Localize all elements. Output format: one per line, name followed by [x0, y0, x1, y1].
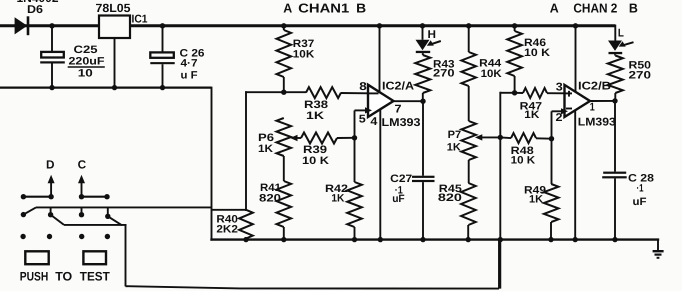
wire row2 stub 3: [81, 207, 83, 214]
wire node C2 down to C28: [614, 101, 616, 172]
svg-text:L: L: [618, 28, 624, 40]
svg-text:IC2/A: IC2/A: [382, 80, 414, 92]
op-amp U2 minus marker: [566, 108, 572, 110]
svg-text:uF: uF: [633, 196, 647, 208]
push button 2: [83, 251, 106, 264]
capacitor C27 bottom plate: [412, 180, 435, 182]
ground bar 1: [653, 250, 664, 252]
wire op-amp U2 V+ from rail: [575, 26, 577, 92]
resistor R45: [461, 183, 476, 225]
node C26 on power ground: [160, 85, 165, 90]
wire switch row1 right bar: [82, 196, 108, 198]
switch arrow D shaft: [50, 181, 52, 197]
wire R44 to P7: [468, 86, 470, 121]
resistor R46: [507, 31, 522, 76]
wire C25 top lead: [51, 26, 53, 52]
svg-text:P7: P7: [448, 129, 462, 141]
switch contact row3-1: [20, 234, 25, 239]
node IC1 gnd: [112, 85, 117, 90]
wire plus input overshoot IC2/A: [368, 92, 379, 94]
wire node C1 down to C27: [422, 101, 424, 176]
svg-text:CHAN1: CHAN1: [298, 0, 349, 15]
op-amp U2 plus marker horizontal: [565, 92, 573, 94]
wire R48 to node B2: [536, 137, 552, 139]
svg-text:4·7: 4·7: [181, 57, 198, 69]
resistor R40: [239, 210, 253, 239]
op-amp IC2/B: [565, 85, 591, 117]
wire test link up to ground rail: [498, 240, 500, 289]
svg-text:1K: 1K: [529, 194, 543, 206]
wire R38 to op-amp plus input: [341, 92, 368, 94]
LED L: [608, 41, 622, 51]
svg-text:C25: C25: [74, 44, 98, 56]
LED L indicator arrowhead: [619, 41, 626, 46]
node test link on ground rail: [498, 237, 503, 242]
svg-text:uF: uF: [392, 193, 405, 205]
wire from node A2 down to bottom link: [499, 92, 501, 289]
diode D6 cathode bar: [27, 16, 30, 35]
node B2 (R48/R49/minus input): [549, 136, 554, 141]
node A2 (R46/R47): [512, 90, 517, 95]
svg-text:A: A: [550, 0, 560, 15]
switch contact row2-2: [48, 212, 53, 217]
potentiometer P6 wiper arrow: [290, 135, 297, 141]
svg-text:C27: C27: [390, 173, 412, 185]
svg-text:TO: TO: [55, 270, 72, 284]
node R42 on ground rail: [352, 237, 357, 242]
svg-text:PUSH: PUSH: [20, 270, 49, 284]
wire P7 wiper to node D2: [481, 136, 500, 138]
potentiometer P6: [277, 118, 292, 156]
switch contact row1-1: [21, 194, 26, 199]
svg-text:1: 1: [590, 101, 595, 113]
wire R39 to node B1: [337, 137, 355, 139]
wire node A2 to R47: [515, 92, 523, 94]
label C25 fraction bar: [68, 66, 105, 68]
wire row2-2 diagonal down: [51, 215, 64, 225]
wire R46 bottom lead: [514, 76, 516, 93]
wire main bottom ground rail: [210, 238, 659, 240]
capacitor C26 negative plate: [150, 62, 174, 64]
capacitor C28 top plate: [603, 172, 626, 174]
svg-text:5: 5: [359, 114, 366, 126]
wire row2-4 diagonal down: [108, 216, 122, 225]
node C28 on ground rail: [612, 237, 617, 242]
resistor R42: [347, 182, 362, 227]
svg-text:4: 4: [370, 116, 378, 128]
switch arrow C head: [78, 175, 85, 183]
node D2 (P7 wiper): [498, 135, 503, 140]
capacitor C26 positive plate: [150, 52, 174, 57]
wire row2 stub 4: [107, 207, 109, 216]
svg-text:7: 7: [395, 104, 402, 116]
svg-text:P6: P6: [258, 132, 274, 144]
svg-text:1K: 1K: [447, 142, 461, 154]
switch contact row1-4: [104, 194, 109, 199]
svg-text:·1: ·1: [637, 183, 644, 195]
wire R37 bottom lead: [283, 77, 285, 92]
switch contact row1-3: [79, 194, 84, 199]
svg-text:CHAN 2: CHAN 2: [573, 0, 617, 15]
node R41 on ground rail: [281, 237, 286, 242]
LED H indicator arrow shaft: [430, 41, 441, 45]
wire R46 top lead: [514, 26, 516, 31]
switch contact row3-4: [105, 234, 110, 239]
potentiometer P7 wiper arrow: [475, 134, 482, 140]
node C1 (output/R43/C27): [420, 99, 425, 104]
wire to op-amp U2 minus input: [552, 110, 563, 112]
wire node A1 down to R40: [245, 91, 247, 211]
wire node B2 up to minus input: [551, 111, 553, 139]
wire P6 wiper to R39: [297, 137, 302, 139]
ground stem: [657, 239, 659, 252]
svg-text:10K: 10K: [293, 48, 315, 60]
switch contact row2-3: [79, 212, 84, 217]
wire R47 to op-amp plus input: [547, 92, 565, 94]
wire node B1 down to R42: [354, 138, 356, 182]
svg-text:IC2/B: IC2/B: [578, 80, 611, 92]
resistor R44: [461, 52, 476, 86]
svg-text:1K: 1K: [524, 109, 539, 121]
switch blade diagonal: [23, 207, 36, 214]
switch contact row2-1: [21, 212, 26, 217]
wire LED L to R50: [614, 54, 616, 55]
svg-text:IC1: IC1: [132, 14, 148, 26]
wire R42 bottom lead: [354, 227, 356, 240]
LED H indicator arrowhead: [427, 40, 434, 46]
wire node B1 up to minus input: [354, 110, 356, 138]
svg-text:LM393: LM393: [382, 117, 421, 129]
svg-text:1K: 1K: [258, 143, 273, 155]
wire IC1 ground lead: [114, 38, 116, 88]
node R37 on V+ rail: [281, 23, 286, 28]
node U2 V+ on rail: [573, 23, 578, 28]
wire C27 bottom lead: [422, 182, 424, 240]
wire LED L top lead: [614, 25, 616, 41]
svg-text:8: 8: [359, 81, 367, 93]
wire op-amp U1 pin8 V+ from rail: [379, 26, 381, 92]
switch arrow D head: [48, 175, 55, 183]
svg-text:820: 820: [438, 192, 462, 204]
switch contact row2-4: [105, 214, 110, 219]
wire R43 bottom lead: [422, 93, 424, 101]
node pin8 on V+ rail: [377, 23, 382, 28]
node R45 on ground rail: [466, 237, 471, 242]
node C2 (output/R50/C28): [612, 98, 617, 103]
resistor R50: [608, 56, 623, 94]
wire C26 bottom lead: [162, 64, 164, 87]
node B1 (R39/R42/minus input): [352, 135, 357, 140]
node C27 on ground rail: [420, 237, 425, 242]
svg-text:10 K: 10 K: [302, 155, 329, 167]
node D6/C25 on V+ rail: [49, 23, 54, 28]
switch contact row3-2: [47, 234, 52, 239]
LED H: [416, 40, 430, 50]
svg-text:TEST: TEST: [80, 270, 110, 284]
wire switch row1 left bar: [23, 196, 51, 198]
wire R41 bottom lead: [283, 227, 285, 240]
op-amp IC2/A: [368, 85, 394, 117]
wire power-supply ground rail: [0, 86, 212, 88]
resistor R41: [277, 181, 292, 227]
node R49 on ground rail: [548, 237, 553, 242]
wire C26 top lead: [162, 26, 164, 53]
wire LED H top lead: [422, 26, 424, 40]
wire row2 stub 2: [50, 207, 52, 214]
svg-text:A: A: [283, 0, 293, 15]
wire to R40 top: [212, 209, 247, 211]
svg-text:3: 3: [556, 81, 563, 93]
svg-text:B: B: [629, 0, 638, 15]
svg-text:D6: D6: [27, 4, 43, 16]
arrow into op-amp U2 minus input: [561, 108, 568, 114]
svg-text:C: C: [78, 158, 87, 172]
resistor R39: [301, 133, 337, 144]
capacitor C28 bottom plate: [602, 176, 627, 178]
wire op-amp U1 pin4 ground: [379, 110, 381, 241]
op-amp U2 plus marker vertical: [568, 91, 570, 97]
wire R37 top lead: [283, 26, 285, 30]
svg-text:270: 270: [629, 70, 652, 82]
wire vertical from power rail down to bottom rail: [211, 87, 213, 241]
node R46 on V+ rail: [512, 23, 517, 28]
ground bar 2: [655, 254, 662, 256]
wire node A2 left: [500, 92, 514, 94]
wire test link bottom: [126, 286, 500, 288]
ground bar 3: [657, 257, 660, 259]
svg-text:10: 10: [78, 67, 93, 79]
wire IC2/B output to node C2: [590, 100, 615, 102]
svg-text:10K: 10K: [481, 68, 502, 80]
wire R45 bottom lead: [467, 225, 469, 240]
wire node B2 down to R49: [551, 139, 553, 184]
svg-text:10 K: 10 K: [511, 155, 536, 167]
diode D6: [15, 17, 28, 34]
LED H cathode bar: [416, 51, 430, 53]
svg-text:10 K: 10 K: [524, 47, 550, 59]
wire to op-amp minus input: [355, 109, 367, 111]
svg-text:D: D: [46, 158, 55, 172]
capacitor C25 positive plate: [41, 52, 64, 58]
switch contact row1-2: [48, 194, 53, 199]
wire C25 bottom lead: [51, 64, 53, 88]
svg-text:LM393: LM393: [578, 116, 616, 128]
resistor R48: [511, 133, 536, 143]
wire lower switch link: [64, 224, 127, 226]
node pin4 on ground rail: [378, 237, 383, 242]
LED L cathode bar: [609, 52, 623, 54]
wire P7 to R45: [468, 160, 470, 183]
wire switch common to R40 node: [36, 206, 212, 208]
svg-text:1K: 1K: [331, 193, 344, 205]
wire op-amp U2 ground pin: [574, 110, 576, 240]
wire LED H to R43: [422, 53, 424, 55]
svg-text:u F: u F: [181, 70, 198, 82]
wire R50 bottom lead: [614, 93, 616, 101]
capacitor C27 top plate: [412, 176, 435, 178]
arrow into op-amp minus input: [365, 107, 372, 113]
resistor R43: [415, 55, 430, 93]
resistor R37: [277, 30, 292, 77]
wire R49 bottom lead: [550, 222, 552, 240]
resistor R38: [306, 87, 341, 98]
potentiometer P7: [461, 121, 476, 160]
LED L indicator arrow shaft: [622, 42, 634, 45]
wire top V+ rail: [0, 24, 615, 27]
resistor R49: [544, 184, 559, 222]
capacitor C25 negative plate: [40, 61, 65, 63]
svg-text:270: 270: [433, 68, 455, 80]
switch arrow C shaft: [81, 181, 83, 197]
svg-text:220uF: 220uF: [69, 56, 106, 68]
wire C28 bottom lead: [614, 178, 616, 240]
svg-text:2K2: 2K2: [216, 224, 238, 236]
node C25 on power ground: [49, 85, 54, 90]
node A1 (R37/P6/R38): [281, 90, 286, 95]
svg-text:B: B: [356, 0, 366, 15]
wire P6 to R41: [283, 156, 285, 181]
node LED H on V+ rail: [420, 23, 425, 28]
node R40 on ground rail: [243, 237, 248, 242]
wire IC2/A output to node C1: [394, 100, 424, 102]
regulator IC1 78L05 box: [99, 16, 130, 39]
switch contact row3-3: [79, 234, 84, 239]
resistor R47: [523, 88, 547, 98]
svg-text:78L05: 78L05: [96, 1, 131, 15]
node C26 on V+ rail: [160, 23, 165, 28]
svg-text:H: H: [428, 29, 437, 41]
wire P7 node to R48: [500, 136, 511, 139]
push button 1: [25, 251, 48, 264]
svg-text:1K: 1K: [306, 110, 324, 122]
node R44 on V+ rail: [466, 23, 471, 28]
wire node A1 to R38: [245, 91, 306, 93]
node U2 gnd on ground rail: [573, 237, 578, 242]
wire test link vertical: [125, 224, 127, 286]
wire R44 top lead: [468, 26, 470, 52]
svg-text:820: 820: [259, 193, 281, 205]
